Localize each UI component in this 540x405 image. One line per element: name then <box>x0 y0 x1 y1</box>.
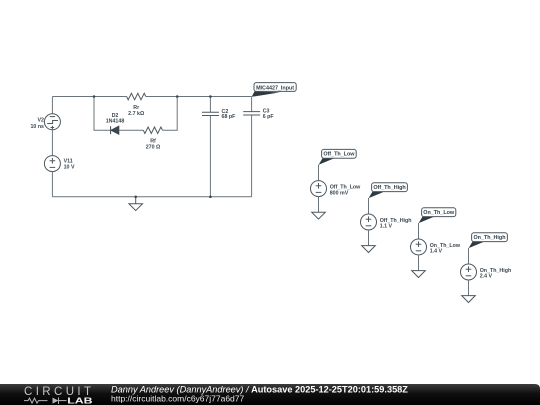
voltage source Off_Th_High group <box>361 183 412 253</box>
svg-text:10 V: 10 V <box>64 164 75 170</box>
wire: source bottom to ground <box>368 230 370 246</box>
net flag Off_Th_High <box>369 192 384 199</box>
ground <box>312 212 326 219</box>
voltage source V (On_Th_High) <box>461 264 477 280</box>
net flag Off_Th_Low <box>319 158 334 165</box>
wire: bottom rail <box>52 196 251 198</box>
voltage source V (Off_Th_High) <box>361 214 377 230</box>
diode D2 <box>111 126 119 134</box>
label Rf 270 Ω <box>146 139 161 151</box>
voltage source On_Th_High group <box>461 233 512 303</box>
label D2 1N4148 <box>106 113 125 125</box>
wire: source bottom to ground <box>318 197 320 213</box>
resistor Rr <box>127 93 146 100</box>
svg-text:6 pF: 6 pF <box>263 114 275 120</box>
wire: V2 to V11 <box>51 130 53 156</box>
node: junction bottom rail / C2 <box>209 196 212 199</box>
svg-text:LAB: LAB <box>67 396 93 405</box>
resistor Rf <box>143 127 162 134</box>
footer bar <box>0 384 540 405</box>
node: junction top rail / diode loop right <box>176 95 179 98</box>
wire: Rf to right vertical of loop <box>163 97 178 131</box>
wire: diode loop left vertical <box>94 97 111 131</box>
svg-text:Rr: Rr <box>133 105 139 111</box>
svg-text:10 ns: 10 ns <box>30 124 44 130</box>
wire: diode to Rf <box>119 129 144 131</box>
svg-text:Off_Th_Low: Off_Th_Low <box>323 152 355 158</box>
svg-text:MIC4427_Input: MIC4427_Input <box>256 86 294 92</box>
label V11 <box>64 158 75 170</box>
voltage source V (Off_Th_Low) <box>311 181 327 197</box>
wire: V2 top to top rail <box>51 97 53 114</box>
svg-text:http://circuitlab.com/c6y67j77: http://circuitlab.com/c6y67j77a6d77 <box>111 393 245 403</box>
node: junction top rail / diode loop left <box>93 95 96 98</box>
svg-text:2.7 kΩ: 2.7 kΩ <box>128 111 145 117</box>
wire: flag anchor to source top <box>418 223 420 239</box>
net flag On_Th_High <box>469 242 484 249</box>
voltage source V11 (DC) <box>44 156 60 172</box>
svg-text:1.1 V: 1.1 V <box>380 224 393 230</box>
label C3 6 pF <box>263 109 275 120</box>
svg-text:1.4 V: 1.4 V <box>430 249 443 255</box>
wire: source bottom to ground <box>468 280 470 296</box>
svg-text:1N4148: 1N4148 <box>106 119 125 125</box>
voltage source On_Th_Low group <box>411 208 461 278</box>
node: junction bottom rail / ground <box>134 196 137 199</box>
wire: flag anchor to source top <box>468 248 470 264</box>
voltage source V2 (pulse) <box>44 114 60 130</box>
svg-text:270 Ω: 270 Ω <box>146 145 161 151</box>
wire: top rail left segment <box>52 96 126 98</box>
wire: top rail right segment <box>146 96 252 98</box>
ground <box>462 296 476 303</box>
ground <box>362 246 376 253</box>
svg-text:800 mV: 800 mV <box>330 190 349 196</box>
wire: flag anchor to source top <box>318 165 320 181</box>
svg-text:On_Th_Low: On_Th_Low <box>423 210 455 216</box>
voltage source Off_Th_Low group <box>311 149 362 219</box>
svg-text:68 pF: 68 pF <box>222 114 237 120</box>
ground (main circuit) <box>129 197 143 211</box>
label C2 68 pF <box>222 109 237 120</box>
label V2 <box>30 118 44 130</box>
label Rr 2.7 kΩ <box>128 105 145 117</box>
capacitor C3 <box>243 97 260 197</box>
svg-text:2.4 V: 2.4 V <box>480 274 493 280</box>
voltage source V (On_Th_Low) <box>411 239 427 255</box>
CircuitLab logo resistor-diode symbol <box>24 397 67 404</box>
wire: flag anchor to source top <box>368 198 370 214</box>
ground <box>412 271 426 278</box>
svg-text:On_Th_High: On_Th_High <box>473 235 505 241</box>
wire: V11 to bottom rail <box>51 172 53 197</box>
net flag On_Th_Low <box>419 217 434 224</box>
svg-text:Off_Th_High: Off_Th_High <box>373 185 405 191</box>
wire: source bottom to ground <box>418 255 420 271</box>
svg-text:V2: V2 <box>38 118 45 124</box>
capacitor C2 <box>202 97 219 197</box>
net flag MIC4427_Input <box>252 83 297 97</box>
node: junction top rail / C2 <box>209 95 212 98</box>
